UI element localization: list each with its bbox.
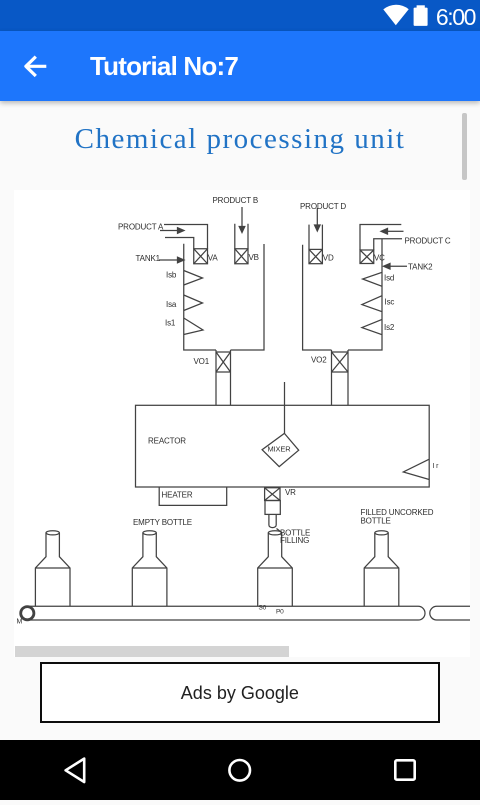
svg-text:TANK2: TANK2 [408,263,433,272]
svg-text:BOTTLE: BOTTLE [361,517,391,526]
svg-text:Isd: Isd [384,274,394,283]
svg-text:VR: VR [285,488,296,497]
svg-text:PRODUCT D: PRODUCT D [300,202,346,211]
svg-text:M: M [17,619,23,626]
svg-text:VC: VC [374,254,385,263]
svg-text:MIXER: MIXER [268,445,292,454]
svg-text:HEATER: HEATER [162,491,193,500]
svg-text:Is2: Is2 [384,323,395,332]
svg-text:PRODUCT C: PRODUCT C [405,237,451,246]
svg-text:REACTOR: REACTOR [148,437,186,446]
svg-text:TANK1: TANK1 [136,254,161,263]
svg-text:EMPTY BOTTLE: EMPTY BOTTLE [133,518,192,527]
svg-text:FILLING: FILLING [280,536,309,545]
svg-text:Isb: Isb [166,271,177,280]
svg-text:VO1: VO1 [194,357,210,366]
svg-text:Isa: Isa [166,300,177,309]
svg-text:PRODUCT B: PRODUCT B [213,196,259,205]
svg-text:I r: I r [433,463,440,470]
svg-text:S0: S0 [259,605,267,612]
svg-text:VB: VB [249,253,259,262]
svg-text:VD: VD [323,254,334,263]
svg-text:P0: P0 [276,609,284,616]
svg-text:VO2: VO2 [311,356,327,365]
svg-text:Isc: Isc [385,298,395,307]
svg-text:PRODUCT A: PRODUCT A [118,223,164,232]
svg-text:VA: VA [208,254,219,263]
svg-text:Is1: Is1 [165,319,176,328]
